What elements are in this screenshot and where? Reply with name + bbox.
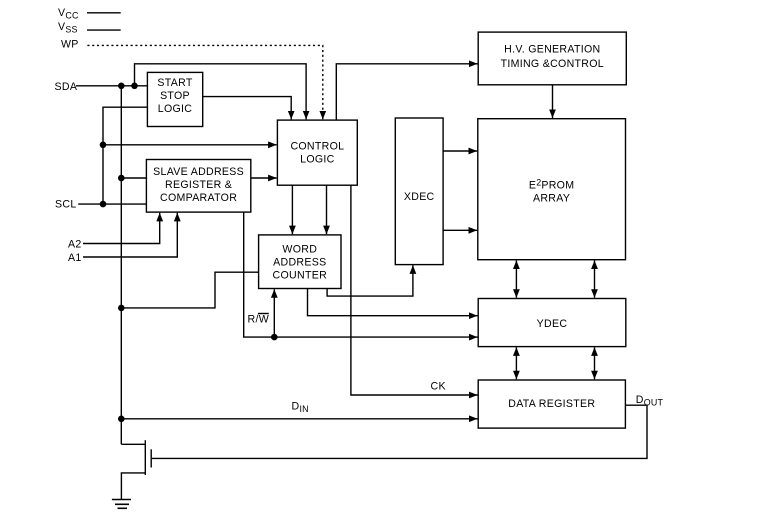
wire SDA branch to SLAVE ADDRESS REGISTER bbox=[121, 177, 146, 179]
svg-text:CONTROL: CONTROL bbox=[290, 141, 344, 153]
wire XDEC to E2PROM lower bbox=[443, 229, 477, 231]
wire VSS stub bbox=[87, 29, 121, 31]
box U4 WORD ADDRESS COUNTER bbox=[259, 235, 341, 289]
svg-text:H.V. GENERATION: H.V. GENERATION bbox=[504, 44, 600, 56]
svg-text:DIN: DIN bbox=[292, 401, 309, 415]
junction R/W branch bbox=[271, 334, 278, 341]
svg-text:WORD: WORD bbox=[282, 243, 317, 255]
wire CONTROL LOGIC to H.V. GENERATION bbox=[336, 64, 477, 120]
svg-text:START: START bbox=[157, 77, 192, 89]
svg-text:CK: CK bbox=[431, 381, 446, 393]
svg-text:YDEC: YDEC bbox=[537, 318, 568, 330]
wire R/W from SLAVE ADDRESS REGISTER to YDEC bbox=[244, 212, 478, 337]
wire WORD ADDRESS COUNTER to YDEC bbox=[308, 289, 478, 316]
svg-text:SLAVE ADDRESS: SLAVE ADDRESS bbox=[153, 166, 244, 178]
svg-text:R/W: R/W bbox=[248, 314, 270, 326]
svg-text:REGISTER &: REGISTER & bbox=[165, 179, 232, 191]
wire DIN to DATA REGISTER bbox=[121, 418, 477, 420]
wire SDA bus to WORD ADDRESS COUNTER left bbox=[121, 272, 258, 308]
svg-text:COMPARATOR: COMPARATOR bbox=[160, 192, 237, 204]
box U3 SLAVE ADDRESS REGISTER & COMPARATOR bbox=[146, 160, 250, 213]
junction SCL bbox=[100, 201, 107, 208]
wire E2PROM to YDEC double arrow right bbox=[594, 260, 596, 297]
transistor Q1 drain wire bbox=[121, 443, 145, 445]
transistor Q1 gate bar bbox=[150, 449, 152, 467]
wire SCL input bbox=[78, 203, 146, 205]
wire SCL riser to START STOP LOGIC bbox=[103, 107, 147, 204]
junction SDA bus to word address counter bbox=[118, 305, 125, 312]
wire CK from CONTROL LOGIC to DATA REGISTER bbox=[351, 185, 478, 395]
wire SDA input bbox=[76, 85, 147, 87]
wire DOUT from DATA REGISTER to output transistor gate bbox=[152, 405, 647, 458]
wire WORD ADDRESS COUNTER to XDEC bbox=[327, 265, 413, 296]
svg-text:DATA REGISTER: DATA REGISTER bbox=[508, 398, 595, 410]
junction SDA branch up bbox=[131, 83, 138, 90]
wire VCC stub bbox=[87, 12, 121, 14]
svg-text:E2PROM: E2PROM bbox=[529, 178, 575, 192]
wire CONTROL LOGIC to WORD ADDRESS COUNTER left arrow bbox=[291, 185, 293, 234]
wire E2PROM to YDEC double arrow left bbox=[515, 260, 517, 297]
junction SDA bus bbox=[118, 83, 125, 90]
wire CONTROL LOGIC to WORD ADDRESS COUNTER right arrow bbox=[326, 185, 328, 234]
transistor Q1 channel bar bbox=[144, 440, 146, 475]
junction SCL riser to control bbox=[100, 142, 107, 149]
transistor Q1 source wire bbox=[121, 473, 145, 500]
wire SDA to CONTROL LOGIC top bbox=[135, 64, 307, 120]
junction DIN bbox=[118, 416, 125, 423]
wire H.V. GENERATION to E2PROM ARRAY bbox=[552, 85, 554, 118]
ground symbol bbox=[112, 500, 131, 509]
svg-text:SDA: SDA bbox=[55, 81, 78, 93]
box U7 E2PROM ARRAY bbox=[478, 119, 626, 260]
svg-text:LOGIC: LOGIC bbox=[158, 103, 193, 115]
wire SDA vertical bus bbox=[120, 86, 122, 445]
box U6 H.V. GENERATION TIMING & CONTROL bbox=[478, 32, 626, 85]
wire R/W branch to WORD ADDRESS COUNTER bottom bbox=[273, 289, 275, 337]
svg-text:A2: A2 bbox=[68, 238, 82, 250]
box U2 CONTROL LOGIC bbox=[277, 120, 357, 185]
svg-text:ADDRESS: ADDRESS bbox=[273, 256, 326, 268]
svg-text:A1: A1 bbox=[68, 252, 82, 264]
overline of W in R/W bbox=[258, 313, 269, 315]
svg-text:LOGIC: LOGIC bbox=[300, 154, 335, 166]
wire WP dashed to CONTROL LOGIC top bbox=[87, 45, 322, 119]
svg-text:COUNTER: COUNTER bbox=[273, 269, 328, 281]
wire A1 input bbox=[83, 213, 177, 257]
wire YDEC to DATA REGISTER double arrow right bbox=[594, 347, 596, 379]
box U1 START STOP LOGIC bbox=[147, 72, 202, 126]
wire SLAVE ADDRESS REGISTER output to CONTROL LOGIC bbox=[251, 177, 277, 179]
svg-text:ARRAY: ARRAY bbox=[533, 193, 570, 205]
svg-text:STOP: STOP bbox=[160, 90, 190, 102]
wire XDEC to E2PROM upper bbox=[443, 150, 477, 152]
wire START STOP LOGIC output to CONTROL LOGIC top bbox=[203, 97, 292, 120]
svg-text:SCL: SCL bbox=[55, 199, 77, 211]
svg-text:VSS: VSS bbox=[58, 21, 78, 35]
svg-text:TIMING &CONTROL: TIMING &CONTROL bbox=[501, 58, 604, 70]
svg-text:WP: WP bbox=[61, 39, 79, 51]
svg-text:XDEC: XDEC bbox=[404, 191, 435, 203]
wire YDEC to DATA REGISTER double arrow left bbox=[515, 347, 517, 379]
wire A2 input bbox=[83, 213, 160, 244]
box U9 DATA REGISTER bbox=[478, 380, 625, 428]
box U8 YDEC bbox=[478, 299, 626, 347]
wire clock to CONTROL LOGIC left bbox=[103, 144, 277, 146]
junction SDA to slave register bbox=[118, 175, 125, 182]
svg-text:VCC: VCC bbox=[58, 7, 79, 21]
box U5 XDEC bbox=[395, 118, 443, 265]
